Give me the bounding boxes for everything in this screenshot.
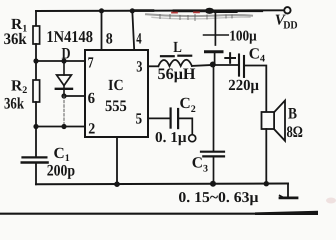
wire: pin 2 row <box>36 126 85 128</box>
capacitor C4 220u <box>225 53 244 77</box>
wire: R1 to pin7 node <box>35 44 37 61</box>
wire: L to node A <box>192 64 212 67</box>
wire: C1 to bottom rail <box>35 164 37 184</box>
svg-text:3: 3 <box>136 59 142 76</box>
wire: left vertical (rail to R1) <box>35 11 37 26</box>
svg-text:36k: 36k <box>4 31 27 48</box>
label pin 2 <box>88 121 95 138</box>
wire: pin 4 to rail <box>132 11 134 50</box>
diode D 1N4148 <box>56 61 72 96</box>
svg-text:220μ: 220μ <box>228 77 259 94</box>
junction: C3 on bottom rail <box>210 181 216 187</box>
wire: pin 6 row <box>64 95 85 97</box>
wire: R2 to pin2 node <box>35 102 37 127</box>
wire: R2 from pin7 node down <box>35 61 37 80</box>
wire: pin 8 to rail <box>101 11 103 50</box>
svg-text:R2: R2 <box>11 77 27 96</box>
label pin 4 <box>136 30 142 47</box>
capacitor C5 100u (from rail) <box>204 11 229 65</box>
node: pin7 junction on left wire <box>33 58 38 63</box>
label IC <box>108 77 124 94</box>
junction: pin4 on rail <box>130 8 135 13</box>
svg-text:D: D <box>62 45 71 62</box>
label C1 <box>54 145 70 164</box>
svg-text:C4: C4 <box>249 46 265 65</box>
label L value 56uH <box>158 66 197 83</box>
svg-text:B: B <box>288 106 297 123</box>
label R1 <box>11 16 27 35</box>
inductor L 56uH <box>158 56 192 66</box>
label pin 5 <box>136 111 143 128</box>
wire: ground bottom rail <box>36 183 288 186</box>
wire: pin 3 stub <box>148 65 158 67</box>
label C2 value 0.1u <box>155 130 187 146</box>
svg-text:IC: IC <box>108 77 124 94</box>
label pin 3 <box>136 59 142 76</box>
svg-text:5: 5 <box>136 111 143 128</box>
junction: pin1 on bottom rail <box>114 181 120 187</box>
label diode D <box>62 45 71 62</box>
svg-text:C2: C2 <box>180 95 196 115</box>
junction: speaker on bottom rail <box>264 181 269 186</box>
node A: output junction <box>210 62 216 68</box>
label C2 <box>180 95 196 115</box>
node: diode anode junction <box>61 58 66 63</box>
wire: C4 to speaker branch <box>245 66 267 113</box>
label C3 value 0.15~0.63u <box>178 190 259 206</box>
label C4 <box>249 46 265 65</box>
label 555 <box>105 98 127 115</box>
wire: faint link pin6 node to pin2 node <box>63 96 65 127</box>
terminal: open circle below C2 <box>189 135 196 142</box>
label pin 7 <box>88 54 94 71</box>
wire: pin 5 stub <box>148 117 169 119</box>
svg-text:0. 15~0. 63μ: 0. 15~0. 63μ <box>178 190 259 206</box>
svg-text:100μ: 100μ <box>229 29 257 45</box>
svg-text:8Ω: 8Ω <box>287 124 304 141</box>
terminal VDD <box>284 7 290 13</box>
wire: pin 7 row <box>36 60 85 62</box>
speaker B <box>262 101 286 141</box>
label L <box>173 39 182 56</box>
resistor R2 <box>33 80 40 102</box>
svg-text:0. 1μ: 0. 1μ <box>155 130 187 146</box>
svg-text:C1: C1 <box>54 145 70 164</box>
wire: pin 1 to bottom rail <box>116 137 118 184</box>
capacitor C2 0.1u <box>171 109 179 129</box>
capacitor C3 (node A to ground) <box>201 65 224 184</box>
svg-text:1N4148: 1N4148 <box>46 27 93 46</box>
svg-text:200p: 200p <box>47 163 75 180</box>
svg-text:DD: DD <box>283 20 298 32</box>
label R1 value 36k <box>4 31 27 48</box>
label C4 value 220u <box>228 77 259 94</box>
label pin 8 <box>106 30 113 47</box>
label C5 value 100u <box>229 29 257 45</box>
svg-text:2: 2 <box>88 121 95 138</box>
resistor R1 <box>33 26 40 44</box>
caption separator line <box>0 198 336 216</box>
label diode part 1N4148 <box>46 27 93 46</box>
label VDD <box>275 13 298 32</box>
label R2 value 36k <box>4 95 24 112</box>
svg-text:7: 7 <box>88 54 94 71</box>
wire: speaker to bottom rail <box>265 129 267 184</box>
svg-text:4: 4 <box>136 30 142 47</box>
node: diode cathode / pin6 junction <box>61 93 66 98</box>
svg-text:8: 8 <box>106 30 113 47</box>
svg-text:56μH: 56μH <box>158 66 197 83</box>
svg-text:555: 555 <box>105 98 127 115</box>
svg-text:6: 6 <box>88 90 96 107</box>
ground <box>280 184 297 198</box>
wire: pin2 node down to C1 <box>35 127 37 158</box>
label C1 value 200p <box>47 163 75 180</box>
junction: pin8 on rail <box>99 8 104 13</box>
label C3 <box>192 155 208 175</box>
node: pin2 junction on left wire <box>33 124 38 129</box>
label pin 6 <box>88 90 96 107</box>
wire: VDD top rail <box>36 8 284 21</box>
label speaker value 8ohm <box>287 124 304 141</box>
IC U1 555 timer box <box>85 50 148 137</box>
svg-text:36k: 36k <box>4 95 24 112</box>
node: diode branch on pin2 row <box>61 124 66 129</box>
wire: C2 to open terminal <box>179 118 192 134</box>
label R2 <box>11 77 27 96</box>
capacitor C1 <box>22 157 48 162</box>
svg-text:L: L <box>173 39 182 56</box>
label speaker B <box>288 106 297 123</box>
wire: node A to C4 <box>213 64 239 66</box>
